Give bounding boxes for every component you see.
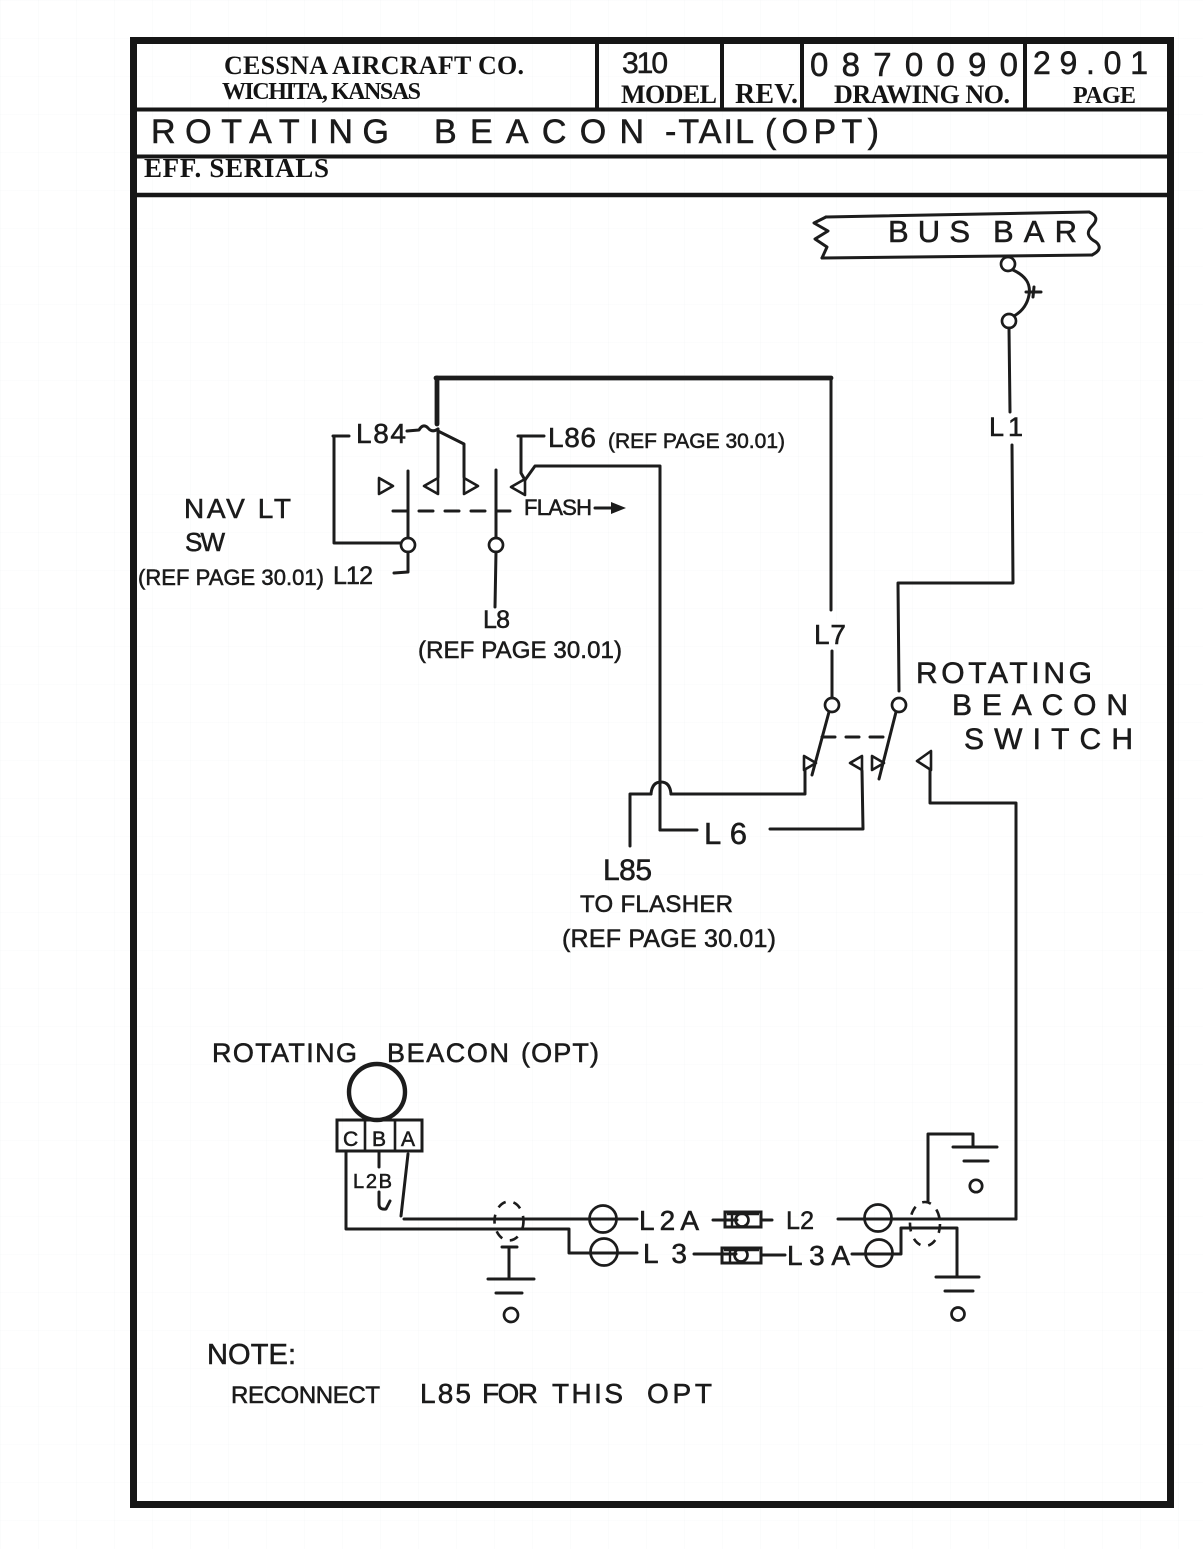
- svg-text:L3: L3: [643, 1238, 687, 1269]
- label L12: [333, 562, 373, 590]
- ground right connector: [928, 1134, 997, 1201]
- label ROTATING BEACON SWITCH: [916, 657, 1133, 756]
- wire L6: [660, 771, 863, 830]
- svg-text:-TAIL: -TAIL: [665, 113, 754, 151]
- svg-text:TO FLASHER: TO FLASHER: [580, 891, 733, 918]
- svg-text:(OPT): (OPT): [521, 1038, 599, 1068]
- svg-text:RECONNECT: RECONNECT: [231, 1382, 380, 1409]
- svg-text:(REF PAGE 30.01): (REF PAGE 30.01): [562, 925, 776, 953]
- label FLASH with arrow: [524, 495, 626, 520]
- svg-text:ROTATING: ROTATING: [212, 1038, 357, 1068]
- svg-text:A: A: [401, 1128, 415, 1151]
- svg-text:L8: L8: [483, 606, 510, 634]
- label L86 (REF PAGE 30.01): [548, 422, 785, 453]
- label L3A: [787, 1240, 850, 1271]
- svg-text:(REF PAGE 30.01): (REF PAGE 30.01): [138, 565, 324, 590]
- label L7: [814, 619, 846, 650]
- svg-text:(REF PAGE 30.01): (REF PAGE 30.01): [418, 637, 622, 664]
- wire L12: [394, 552, 408, 573]
- ground left connector: [488, 1247, 534, 1322]
- connector L3/L3A: [722, 1248, 761, 1263]
- svg-text:SWITCH: SWITCH: [964, 723, 1133, 756]
- wire L84: [333, 378, 464, 543]
- svg-text:L6: L6: [704, 816, 747, 851]
- splice L3A: [866, 1240, 893, 1267]
- svg-text:NAV LT: NAV LT: [184, 493, 291, 524]
- svg-text:EFF. SERIALS: EFF. SERIALS: [144, 153, 329, 183]
- label L1: [989, 412, 1023, 442]
- bulkhead connector left: [495, 1202, 524, 1241]
- bus bar: [814, 212, 1099, 258]
- splice L2: [865, 1205, 892, 1232]
- splice L2A: [590, 1206, 617, 1233]
- svg-text:B: B: [372, 1128, 386, 1151]
- ground L3A: [936, 1277, 979, 1321]
- svg-text:BUS: BUS: [888, 214, 970, 249]
- svg-text:BAR: BAR: [993, 214, 1077, 249]
- note text: [207, 1339, 712, 1409]
- rotating beacon lamp: [349, 1064, 405, 1120]
- label L84: [356, 418, 406, 449]
- svg-text:WICHITA, KANSAS: WICHITA, KANSAS: [222, 79, 421, 105]
- wire L7: [831, 378, 832, 698]
- label L2B: [353, 1171, 392, 1193]
- svg-text:L7: L7: [814, 619, 846, 650]
- wire terminal A drop: [401, 1154, 408, 1216]
- svg-text:(OPT): (OPT): [765, 113, 879, 151]
- svg-text:CESSNA AIRCRAFT CO.: CESSNA AIRCRAFT CO.: [224, 51, 524, 80]
- svg-text:L2A: L2A: [639, 1205, 699, 1236]
- svg-text:THIS: THIS: [552, 1378, 623, 1409]
- bulkhead connector right: [910, 1202, 940, 1246]
- svg-text:BEACON: BEACON: [387, 1038, 509, 1068]
- svg-text:SW: SW: [185, 527, 225, 557]
- svg-text:29.01: 29.01: [1033, 45, 1148, 81]
- svg-text:(REF PAGE 30.01): (REF PAGE 30.01): [608, 430, 785, 453]
- wire rotating beacon feed: [930, 770, 1016, 1219]
- svg-text:OPT: OPT: [647, 1378, 712, 1409]
- label L2: [786, 1207, 814, 1235]
- svg-text:PAGE: PAGE: [1073, 83, 1136, 109]
- splice L3: [591, 1239, 618, 1266]
- svg-text:MODEL: MODEL: [621, 80, 717, 109]
- wire L8: [495, 552, 496, 607]
- wire L2: [761, 1219, 1016, 1220]
- svg-text:L 1: L 1: [989, 412, 1023, 442]
- wire L3A: [694, 1228, 957, 1277]
- wire from nav switch junction to L7 (top feed): [436, 376, 831, 381]
- svg-text:310: 310: [622, 47, 668, 80]
- connector L2A/L2: [725, 1212, 761, 1227]
- svg-text:FOR: FOR: [482, 1378, 538, 1409]
- label NAV LT SW (REF PAGE 30.01): [138, 493, 324, 590]
- svg-text:L2: L2: [786, 1207, 814, 1235]
- svg-text:DRAWING NO.: DRAWING NO.: [834, 80, 1010, 109]
- svg-text:L12: L12: [333, 562, 373, 590]
- svg-text:NOTE:: NOTE:: [207, 1339, 296, 1371]
- label L8 (REF PAGE 30.01): [418, 606, 622, 664]
- svg-text:C: C: [343, 1128, 358, 1151]
- svg-text:L85: L85: [420, 1378, 471, 1409]
- wire L86: [518, 436, 544, 480]
- wire L2A: [404, 1219, 737, 1220]
- svg-text:BEACON: BEACON: [952, 689, 1128, 722]
- svg-text:L86: L86: [548, 422, 596, 453]
- label ROTATING BEACON (OPT): [212, 1038, 599, 1068]
- terminal block C B A: [337, 1120, 422, 1151]
- svg-text:L84: L84: [356, 418, 406, 449]
- svg-text:L2B: L2B: [353, 1171, 392, 1193]
- svg-text:ROTATING: ROTATING: [151, 113, 389, 151]
- svg-text:FLASH: FLASH: [524, 495, 592, 520]
- wire L3 from terminal C: [346, 1151, 637, 1253]
- svg-text:0870090: 0870090: [810, 46, 1018, 83]
- circuit breaker L1: [1001, 257, 1041, 328]
- svg-text:BEACON: BEACON: [434, 113, 644, 151]
- nav light switch: [379, 470, 525, 552]
- svg-text:ROTATING: ROTATING: [916, 657, 1092, 690]
- label L85 TO FLASHER (REF PAGE 30.01): [562, 854, 776, 953]
- svg-text:L85: L85: [603, 854, 652, 887]
- wire L2B: [379, 1151, 390, 1209]
- label L6: [704, 816, 747, 851]
- rotating beacon switch: [804, 698, 931, 779]
- wire L1: [898, 328, 1013, 691]
- svg-text:L3A: L3A: [787, 1240, 850, 1271]
- label L3: [643, 1238, 687, 1269]
- label L2A: [639, 1205, 699, 1236]
- wire FLASH to L6: [525, 466, 660, 830]
- wire L85: [630, 770, 805, 846]
- svg-text:REV.: REV.: [735, 79, 798, 110]
